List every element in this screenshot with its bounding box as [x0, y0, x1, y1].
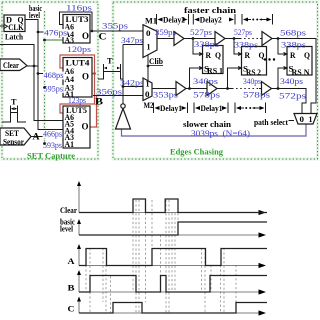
svg-text:Delay1: Delay1: [160, 104, 182, 113]
svg-text:527ps: 527ps: [190, 28, 212, 37]
svg-text:Clear: Clear: [3, 60, 19, 70]
svg-text:level: level: [60, 225, 74, 234]
svg-text:RS 2: RS 2: [246, 68, 261, 77]
svg-text:340ps: 340ps: [193, 77, 218, 86]
svg-text:T: T: [11, 98, 17, 107]
svg-text:Q: Q: [259, 51, 265, 60]
svg-text:Latch: Latch: [5, 32, 23, 42]
svg-text:3039ps (N=64): 3039ps (N=64): [191, 128, 250, 138]
svg-text:527ps: 527ps: [234, 28, 252, 37]
svg-text:355ps: 355ps: [102, 22, 128, 31]
svg-text:A: A: [33, 133, 40, 143]
svg-text:0: 0: [300, 115, 305, 124]
svg-text:578ps: 578ps: [193, 91, 220, 100]
svg-text:A: A: [68, 256, 76, 266]
svg-text:1: 1: [147, 43, 151, 52]
svg-text:359ps: 359ps: [155, 28, 176, 37]
svg-text:SET Capture: SET Capture: [27, 151, 75, 161]
svg-text:RS N: RS N: [292, 68, 310, 77]
svg-text:A3: A3: [65, 36, 75, 45]
svg-text:356ps: 356ps: [96, 88, 122, 97]
svg-text:466ps: 466ps: [43, 130, 62, 139]
svg-text:338ps: 338ps: [194, 40, 219, 49]
svg-text:476ps: 476ps: [44, 29, 67, 38]
svg-text:R: R: [245, 51, 251, 60]
svg-text:O: O: [82, 72, 89, 82]
svg-text:Q: Q: [215, 51, 221, 60]
svg-text:R: R: [290, 51, 296, 60]
svg-text:338ps: 338ps: [234, 41, 258, 50]
svg-text:Delay1: Delay1: [201, 104, 223, 113]
svg-text:116ps: 116ps: [66, 4, 92, 13]
svg-text:Clear: Clear: [60, 205, 77, 215]
svg-text:568ps: 568ps: [280, 29, 306, 38]
svg-text:path select: path select: [254, 117, 288, 127]
svg-text:1: 1: [146, 80, 150, 89]
svg-text:M1: M1: [145, 16, 157, 26]
svg-text:O: O: [82, 31, 89, 41]
svg-text:Delay2: Delay2: [200, 16, 222, 25]
svg-text:Clib: Clib: [149, 57, 164, 66]
svg-text:120ps: 120ps: [67, 45, 91, 54]
svg-text:123ps: 123ps: [68, 96, 86, 105]
svg-text:O: O: [82, 122, 89, 132]
svg-text:Q: Q: [304, 51, 310, 60]
svg-text:572ps: 572ps: [279, 92, 306, 101]
svg-text:B: B: [68, 283, 75, 293]
svg-text:595ps: 595ps: [44, 85, 64, 94]
svg-text:342ps: 342ps: [120, 79, 144, 88]
svg-text:RS 1: RS 1: [207, 67, 223, 76]
svg-text:C: C: [99, 33, 107, 43]
svg-text:0: 0: [145, 90, 150, 99]
svg-text:level: level: [29, 11, 41, 20]
svg-text:0: 0: [146, 29, 151, 38]
svg-text:T: T: [107, 57, 113, 66]
svg-text:1: 1: [309, 115, 313, 124]
svg-text:347ps: 347ps: [121, 36, 143, 45]
svg-text:Sensor: Sensor: [3, 138, 24, 147]
svg-text:468ps: 468ps: [44, 71, 64, 80]
svg-text:A1: A1: [65, 140, 75, 149]
svg-text:C: C: [68, 304, 75, 314]
svg-text:353ps: 353ps: [153, 91, 178, 100]
svg-text:Delay2: Delay2: [163, 16, 185, 25]
svg-text:Edges Chasing: Edges Chasing: [170, 147, 224, 157]
svg-text:faster chain: faster chain: [184, 5, 236, 15]
svg-text:593ps: 593ps: [43, 141, 62, 150]
svg-text:M2: M2: [144, 100, 154, 110]
svg-text:578ps: 578ps: [243, 91, 270, 100]
svg-text:B: B: [95, 98, 104, 108]
svg-text:338ps: 338ps: [281, 41, 306, 50]
svg-text:340ps: 340ps: [280, 77, 303, 86]
svg-text:340ps: 340ps: [243, 77, 261, 86]
svg-text:R: R: [206, 51, 212, 60]
